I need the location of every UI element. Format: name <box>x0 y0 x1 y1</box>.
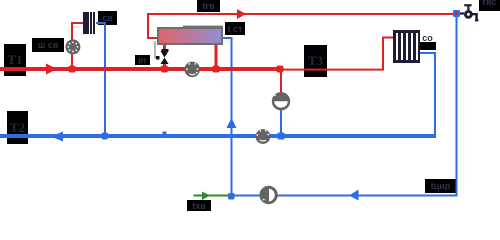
arrow on cold water inlet <box>202 192 210 201</box>
label t st <box>225 22 245 35</box>
junction on supply at HX branch <box>213 66 220 73</box>
arrow on return pipe <box>51 132 63 142</box>
pump P2 heating circuit (circle with down semicircle) <box>272 92 290 110</box>
wire red pump branch upper <box>280 71 282 95</box>
arrow up on cold water riser <box>227 118 237 128</box>
pump P3 on return pipe <box>256 129 271 144</box>
wire red strainer riser to water meter <box>71 22 83 67</box>
arrow on DHW top line <box>237 9 246 19</box>
wire red DHW top line to tap <box>148 13 453 15</box>
pump P1 on supply pipe <box>184 62 200 78</box>
node ГВС tee (blue square with red dot) <box>453 10 460 17</box>
arrow on supply pipe <box>46 64 57 75</box>
junction on supply at valve branch <box>161 66 168 73</box>
junction on return at pump branch <box>278 133 285 140</box>
wire red HX right stub <box>215 45 218 67</box>
pump P4 circulation (circle with right semicircle) <box>259 186 277 204</box>
wire blue cold water riser from HX right side <box>221 37 233 196</box>
wire green cold water inlet <box>194 195 230 197</box>
wire red HX left L-connection <box>147 13 157 39</box>
wire red valve stubs under HX <box>163 45 166 68</box>
junction on supply at pump branch <box>277 66 284 73</box>
wire T2 return pipe (blue) <box>0 134 436 138</box>
label tgv (DHW temperature) <box>197 0 220 12</box>
stub on return pipe <box>163 132 167 135</box>
wire blue ГВС drop from node to circulation <box>456 16 458 197</box>
node label T2 <box>7 111 28 144</box>
label text SO <box>420 33 435 42</box>
label rt (temperature regulator) <box>135 55 150 65</box>
radiator СО <box>393 30 420 63</box>
wire blue radiator return drop <box>420 52 436 136</box>
label sv (cold water meter) <box>98 11 117 25</box>
node label T3 <box>304 45 327 77</box>
label gvs (hot water) <box>479 0 500 11</box>
junction on return at meter drop <box>102 133 109 140</box>
wire T1 main supply pipe (red) <box>0 67 283 71</box>
control valve РТ <box>156 49 169 64</box>
label sh sv (orifice/water meter) <box>32 38 64 52</box>
label thv (cold water) <box>187 200 211 212</box>
arrow on circulation line <box>349 190 359 201</box>
strainer/meter ш св (gray circle with bolt ring) <box>65 39 80 54</box>
wire blue pump branch lower <box>280 110 282 134</box>
water meter СВ (bars symbol) <box>83 12 95 34</box>
heat exchanger U1 <box>158 26 223 44</box>
node label T1 <box>4 44 26 76</box>
tap/faucet ГВС <box>460 4 479 21</box>
label tcir (circulation) <box>425 179 456 193</box>
impulse line to valve <box>155 41 158 58</box>
junction on supply at strainer branch <box>69 66 76 73</box>
label box SO <box>420 42 436 50</box>
wire red T3 thin line <box>283 69 384 71</box>
node cold water inlet <box>228 193 235 200</box>
wire blue circulation line <box>231 195 457 197</box>
wire blue from water meter down to return <box>96 22 106 134</box>
wire red radiator riser <box>382 37 393 71</box>
